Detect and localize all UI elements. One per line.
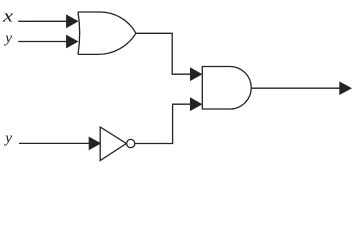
svg-text:y: y (3, 29, 12, 46)
svg-text:y: y (3, 130, 12, 147)
svg-text:x: x (2, 7, 13, 26)
